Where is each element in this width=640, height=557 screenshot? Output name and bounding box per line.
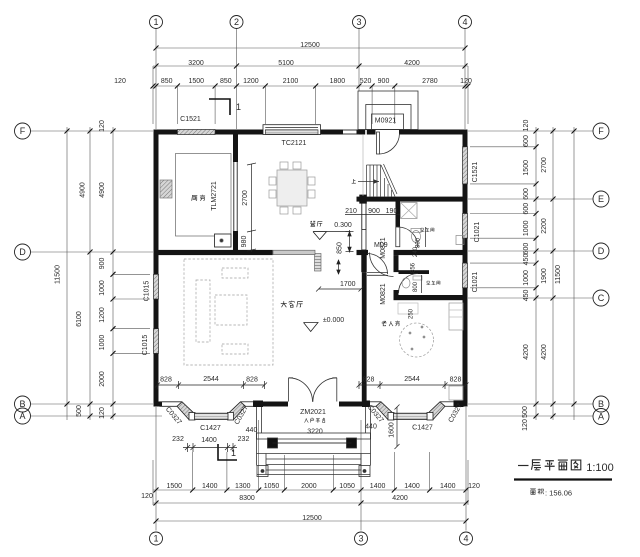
svg-text:232: 232 — [172, 436, 184, 443]
svg-text:450: 450 — [523, 254, 530, 266]
svg-text:1500: 1500 — [167, 483, 183, 490]
svg-text:F: F — [598, 126, 604, 136]
svg-text:1400: 1400 — [404, 483, 420, 490]
svg-text:E: E — [598, 194, 604, 204]
svg-text:1400: 1400 — [370, 483, 386, 490]
svg-text:0.300: 0.300 — [334, 222, 352, 229]
svg-text:440: 440 — [365, 424, 377, 431]
svg-text:12500: 12500 — [300, 42, 320, 49]
svg-text:120: 120 — [141, 493, 153, 500]
svg-text:1: 1 — [153, 534, 158, 544]
svg-text:2: 2 — [234, 17, 239, 27]
svg-text:1000: 1000 — [99, 335, 106, 351]
svg-text:1600: 1600 — [389, 422, 396, 438]
svg-text:1400: 1400 — [202, 483, 218, 490]
svg-text:450: 450 — [523, 289, 530, 301]
svg-text:1000: 1000 — [523, 270, 530, 286]
svg-text:1050: 1050 — [264, 483, 280, 490]
svg-text:120: 120 — [522, 419, 529, 431]
svg-text:3: 3 — [356, 17, 361, 27]
svg-text:828: 828 — [246, 377, 258, 384]
svg-text:980: 980 — [241, 236, 248, 248]
svg-text:M09: M09 — [374, 242, 388, 249]
svg-text:900: 900 — [368, 208, 380, 215]
svg-text:120: 120 — [523, 120, 530, 132]
svg-text:1:100: 1:100 — [586, 462, 614, 474]
svg-text:M0921: M0921 — [375, 118, 397, 125]
svg-text:M0821: M0821 — [380, 283, 387, 305]
svg-text:TLM2721: TLM2721 — [211, 181, 218, 211]
svg-text:C1521: C1521 — [472, 162, 479, 183]
svg-text:828: 828 — [160, 377, 172, 384]
svg-text:: 156.06: : 156.06 — [545, 489, 572, 498]
svg-text:A: A — [19, 411, 25, 421]
svg-text:C1021: C1021 — [474, 222, 481, 243]
svg-text:ZM2021: ZM2021 — [300, 409, 326, 416]
svg-text:4: 4 — [462, 17, 467, 27]
svg-text:1900: 1900 — [541, 268, 548, 284]
svg-text:120: 120 — [99, 407, 106, 419]
svg-text:TC2121: TC2121 — [282, 140, 307, 147]
svg-text:120: 120 — [460, 78, 472, 85]
svg-text:850: 850 — [161, 78, 173, 85]
svg-text:4900: 4900 — [99, 182, 106, 198]
svg-text:850: 850 — [337, 242, 344, 254]
svg-text:1400: 1400 — [201, 437, 217, 444]
svg-text:1500: 1500 — [189, 78, 205, 85]
svg-text:2000: 2000 — [99, 371, 106, 387]
svg-text:C1021: C1021 — [472, 272, 479, 293]
svg-text:500: 500 — [76, 405, 83, 417]
svg-text:2700: 2700 — [541, 157, 548, 173]
svg-text:120: 120 — [99, 120, 106, 132]
svg-text:1000: 1000 — [523, 220, 530, 236]
svg-text:850: 850 — [220, 78, 232, 85]
svg-text:4200: 4200 — [523, 344, 530, 360]
svg-text:C1015: C1015 — [142, 335, 149, 356]
svg-text:232: 232 — [238, 436, 250, 443]
svg-text:11500: 11500 — [555, 265, 562, 284]
svg-text:4200: 4200 — [541, 344, 548, 360]
svg-text:4900: 4900 — [80, 182, 87, 198]
svg-text:120: 120 — [468, 483, 480, 490]
svg-text:±0.000: ±0.000 — [323, 317, 344, 324]
svg-text:520: 520 — [360, 78, 372, 85]
svg-text:2780: 2780 — [422, 78, 438, 85]
svg-text:4: 4 — [463, 534, 468, 544]
svg-text:C1015: C1015 — [144, 281, 151, 302]
svg-text:2200: 2200 — [541, 218, 548, 234]
svg-text:2100: 2100 — [283, 78, 299, 85]
svg-text:F: F — [20, 126, 26, 136]
svg-text:B: B — [19, 399, 25, 409]
svg-text:4200: 4200 — [392, 495, 408, 502]
svg-text:240: 240 — [413, 246, 419, 257]
svg-text:3200: 3200 — [188, 60, 204, 67]
svg-text:C1521: C1521 — [180, 116, 201, 123]
svg-text:A: A — [598, 412, 604, 422]
svg-text:1700: 1700 — [340, 281, 356, 288]
svg-text:210: 210 — [345, 208, 357, 215]
svg-text:3220: 3220 — [307, 429, 323, 436]
svg-text:1300: 1300 — [235, 483, 251, 490]
svg-text:1800: 1800 — [330, 78, 346, 85]
svg-text:4200: 4200 — [404, 60, 420, 67]
svg-text:1: 1 — [231, 448, 236, 458]
svg-text:600: 600 — [523, 203, 530, 215]
svg-text:500: 500 — [522, 406, 529, 418]
svg-text:1200: 1200 — [99, 307, 106, 323]
svg-text:600: 600 — [523, 188, 530, 200]
svg-text:2000: 2000 — [301, 483, 317, 490]
svg-text:3: 3 — [358, 534, 363, 544]
svg-text:900: 900 — [378, 78, 390, 85]
svg-text:1: 1 — [153, 17, 158, 27]
svg-text:C1427: C1427 — [412, 425, 433, 432]
svg-text:120: 120 — [114, 78, 126, 85]
svg-text:8300: 8300 — [239, 495, 255, 502]
svg-text:190: 190 — [386, 208, 398, 215]
svg-text:6100: 6100 — [76, 311, 83, 327]
svg-text:1000: 1000 — [99, 280, 106, 296]
svg-text:5100: 5100 — [278, 60, 294, 67]
svg-text:440: 440 — [246, 427, 258, 434]
svg-text:600: 600 — [523, 243, 530, 255]
svg-text:800: 800 — [413, 281, 419, 292]
svg-text:C1427: C1427 — [200, 425, 221, 432]
svg-text:1200: 1200 — [243, 78, 259, 85]
svg-text:250: 250 — [409, 308, 415, 319]
svg-text:C: C — [598, 293, 605, 303]
svg-text:11500: 11500 — [55, 265, 62, 284]
svg-text:900: 900 — [99, 257, 106, 269]
svg-text:1050: 1050 — [339, 483, 355, 490]
svg-text:600: 600 — [523, 135, 530, 147]
svg-text:2544: 2544 — [404, 376, 420, 383]
svg-text:12500: 12500 — [302, 515, 322, 522]
svg-text:D: D — [598, 246, 605, 256]
svg-text:B: B — [598, 399, 604, 409]
svg-text:1400: 1400 — [440, 483, 456, 490]
svg-text:828: 828 — [450, 377, 462, 384]
svg-text:856: 856 — [411, 262, 417, 273]
svg-text:1: 1 — [236, 102, 241, 112]
svg-text:2700: 2700 — [242, 190, 249, 206]
svg-text:800: 800 — [416, 237, 422, 248]
svg-text:D: D — [19, 247, 26, 257]
svg-text:2544: 2544 — [203, 376, 219, 383]
svg-text:1500: 1500 — [523, 160, 530, 176]
svg-text:828: 828 — [363, 377, 375, 384]
